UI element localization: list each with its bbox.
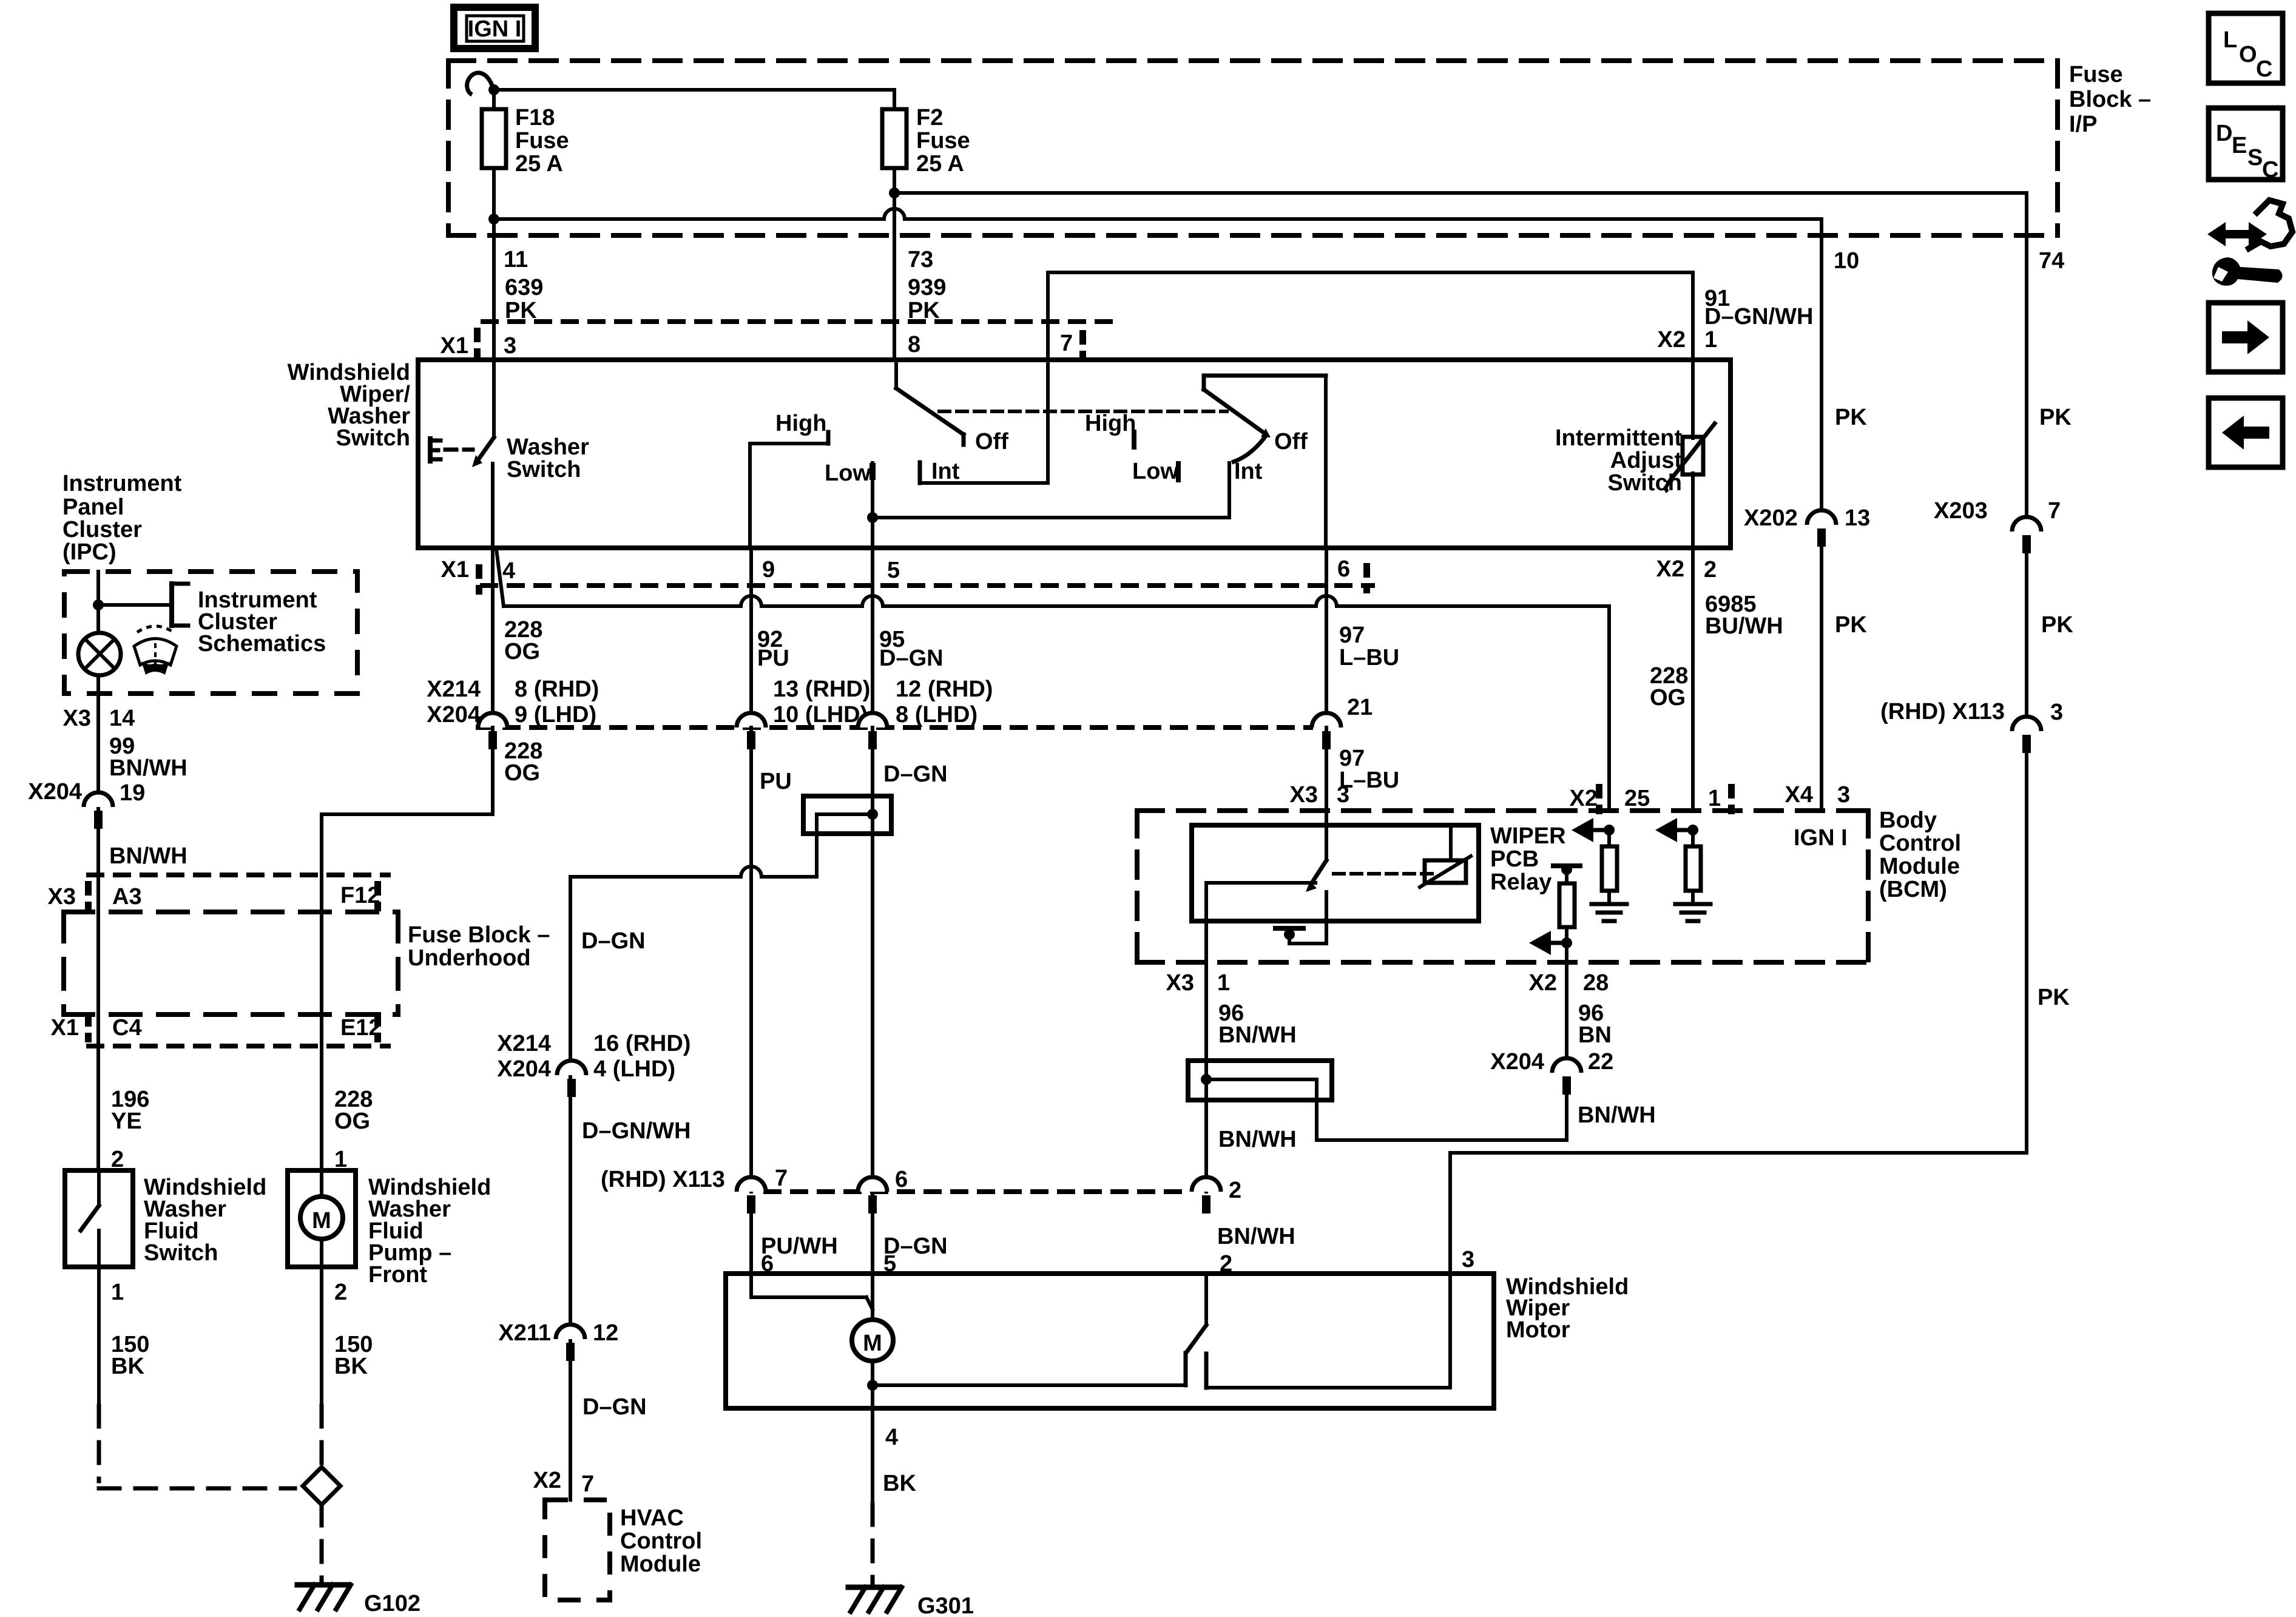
connector X204 pin 22 — [1490, 1049, 1613, 1095]
svg-text:L: L — [2223, 27, 2237, 53]
svg-text:X1: X1 — [441, 557, 469, 582]
relay K1 common wire from X3-3 — [1325, 811, 1328, 860]
svg-text:8 (RHD): 8 (RHD) — [515, 677, 599, 702]
wire IGN I feed curl — [467, 73, 494, 95]
wire 6985 BU/WH from X2-2 — [1691, 548, 1695, 811]
svg-text:D–GN: D–GN — [582, 1394, 647, 1420]
wire 92 PU from pin 9 — [749, 548, 753, 727]
svg-text:X204: X204 — [497, 1056, 551, 1082]
svg-text:F12: F12 — [340, 883, 380, 908]
label D-GN pin 5 — [883, 1234, 948, 1277]
power label IGN I — [454, 7, 535, 49]
sidebar icon back arrow — [2209, 398, 2283, 467]
label 99 BN/WH — [109, 734, 187, 781]
wire 74 PK down to wiper motor pin 3 — [1450, 753, 2027, 1274]
svg-text:High: High — [1085, 411, 1136, 436]
svg-text:PK: PK — [2038, 985, 2070, 1010]
svg-text:Fuse: Fuse — [2069, 62, 2123, 87]
label 91 D-GN/WH — [1704, 286, 1813, 329]
svg-text:S: S — [2247, 145, 2263, 170]
indicator lamp — [78, 633, 121, 675]
wire 95 D-GN from pin 5 — [871, 548, 874, 727]
S1a High contact — [750, 432, 828, 548]
label 97 L-BU (below connector) — [1339, 746, 1399, 793]
svg-text:939: 939 — [908, 275, 946, 300]
motor M1 armature — [852, 1320, 893, 1361]
label X3 pin 1 — [1166, 970, 1231, 996]
label Washer Switch — [507, 434, 589, 482]
svg-text:X203: X203 — [1934, 498, 1988, 524]
svg-text:O: O — [2239, 42, 2257, 67]
svg-text:D–GN: D–GN — [581, 928, 646, 954]
label 96 BN — [1578, 1001, 1612, 1048]
svg-text:639: 639 — [505, 275, 543, 300]
pins 12 (RHD) / 8 (LHD) — [896, 677, 993, 727]
junction F18 output — [488, 214, 499, 224]
wire fuse F2 top — [893, 90, 896, 109]
svg-text:4: 4 — [885, 1425, 898, 1450]
label Body Control Module (BCM) — [1879, 808, 1961, 902]
windshield washer fluid pump box — [288, 1170, 356, 1267]
wire relay common to X3-1 — [1204, 883, 1208, 962]
svg-text:Switch: Switch — [144, 1240, 218, 1266]
wire 97 L-BU down to BCM X3-3 — [1325, 727, 1328, 811]
svg-text:Control: Control — [620, 1528, 702, 1554]
svg-text:X204: X204 — [1490, 1049, 1544, 1075]
connector row X1/C4-E12 dotted — [89, 1044, 388, 1048]
sidebar icon LOC — [2209, 13, 2283, 83]
svg-text:X1: X1 — [51, 1015, 79, 1041]
washer switch actuator E bracket — [430, 439, 473, 461]
splice S-pack on D-GN wire — [803, 796, 891, 877]
S1b Low contact tick — [1176, 464, 1181, 480]
sidebar icon next arrow — [2209, 303, 2283, 372]
connector X1 dashed line (top) — [483, 319, 1110, 324]
label X2 pin 25 — [1570, 786, 1650, 811]
BCM input X2-25: junction, tap arrow, resistor, ground — [1572, 818, 1627, 921]
svg-text:G102: G102 — [364, 1591, 420, 1616]
svg-text:73: 73 — [908, 247, 933, 272]
connector (RHD) X113 pin 3 — [1880, 699, 2063, 753]
label 228 OG (pump) — [334, 1087, 373, 1134]
svg-text:D–GN/WH: D–GN/WH — [582, 1118, 690, 1144]
svg-text:Control: Control — [1879, 831, 1961, 856]
pins 8 (RHD) / 9 (LHD) — [515, 677, 599, 727]
svg-text:2: 2 — [1704, 557, 1717, 582]
svg-text:M: M — [863, 1331, 882, 1356]
svg-text:Panel: Panel — [62, 495, 124, 520]
svg-text:11: 11 — [504, 247, 528, 272]
washer fluid telltale icon — [134, 626, 177, 675]
connector arc on PU wire — [737, 1177, 766, 1214]
svg-text:1: 1 — [1704, 327, 1717, 353]
svg-text:X3: X3 — [63, 706, 91, 731]
svg-text:OG: OG — [504, 639, 540, 664]
label Fuse Block - Underhood — [408, 922, 550, 971]
svg-text:X214: X214 — [497, 1031, 551, 1056]
wire hop over pin 6 wire — [1316, 596, 1337, 606]
svg-text:3: 3 — [1837, 782, 1850, 808]
svg-text:X202: X202 — [1744, 505, 1798, 531]
switch S1a arm from pin 8 (Off position) — [896, 360, 964, 445]
wire BN/WH through fuse block — [96, 875, 100, 1046]
svg-text:G301: G301 — [917, 1593, 974, 1617]
wire pin 4 branch to BCM (net 228 OG) with hops — [496, 549, 1609, 811]
svg-text:8: 8 — [908, 332, 920, 357]
svg-text:9: 9 — [762, 557, 775, 582]
wire hop over F2 wire — [884, 209, 905, 219]
svg-text:7: 7 — [1060, 331, 1073, 356]
svg-text:3: 3 — [1337, 782, 1349, 808]
park switch arm from pin 2 — [1187, 1274, 1206, 1352]
svg-text:BK: BK — [111, 1354, 144, 1379]
wiper PCB relay box K1 — [1192, 825, 1479, 921]
svg-text:F18: F18 — [515, 105, 555, 130]
svg-text:Cluster: Cluster — [62, 517, 142, 542]
svg-text:E: E — [2232, 133, 2247, 158]
svg-text:X2: X2 — [1656, 556, 1684, 582]
wire 228 OG to underhood fuse block — [322, 727, 493, 1170]
svg-text:F2: F2 — [916, 105, 943, 130]
bracket to instrument cluster schematics — [98, 584, 188, 626]
washer switch contact symbol — [472, 360, 494, 548]
junction on F18 wire — [488, 84, 499, 95]
wire 228 OG from pin 4 — [491, 548, 495, 727]
svg-text:PK: PK — [2041, 612, 2073, 638]
svg-text:A3: A3 — [112, 884, 142, 910]
wire D-GN branch to X211 — [569, 1192, 572, 1500]
svg-text:3: 3 — [2050, 700, 2063, 725]
svg-text:1: 1 — [1217, 970, 1230, 996]
label 97 L-BU — [1339, 623, 1399, 670]
svg-text:19: 19 — [120, 780, 145, 806]
fuse F18 — [482, 109, 506, 168]
label Windshield Wiper/ Washer Switch — [288, 360, 411, 451]
wire 10 PK to BCM — [1820, 547, 1823, 811]
svg-text:BN/WH: BN/WH — [1218, 1022, 1297, 1048]
svg-text:3: 3 — [504, 333, 516, 359]
washer pump motor — [300, 1170, 343, 1267]
windshield wiper motor box M1 — [726, 1274, 1494, 1408]
wire hop over pin 5 wire — [862, 596, 883, 606]
svg-text:PCB: PCB — [1490, 846, 1539, 872]
connector X1 dashed line (bottom) — [482, 583, 1373, 588]
wire 91 D-GN/WH from switch pin 7 to BCM branch — [1048, 272, 1693, 360]
label 6985 BU/WH — [1705, 592, 1783, 639]
svg-text:21: 21 — [1347, 695, 1373, 720]
svg-text:BN: BN — [1578, 1022, 1612, 1048]
label X4 pin 3 — [1785, 782, 1851, 808]
label X2 pin 28 — [1529, 970, 1609, 996]
BCM input pin 1: junction, tap arrow, resistor, ground — [1655, 818, 1710, 921]
svg-text:BU/WH: BU/WH — [1705, 613, 1783, 639]
svg-text:Off: Off — [975, 429, 1008, 454]
svg-text:25 A: 25 A — [515, 151, 563, 177]
svg-text:Fuse Block –: Fuse Block – — [408, 922, 550, 948]
svg-text:PU: PU — [760, 769, 792, 794]
svg-text:(IPC): (IPC) — [62, 539, 116, 565]
connector arc on 97 L-BU wire — [1312, 713, 1341, 749]
svg-text:28: 28 — [1583, 970, 1609, 996]
label F2 Fuse 25 A — [916, 105, 970, 177]
label Windshield Wiper Motor — [1506, 1274, 1629, 1343]
park switch contacts — [1186, 1353, 1450, 1388]
HVAC control module dashed box — [545, 1500, 610, 1600]
svg-text:25 A: 25 A — [916, 151, 964, 177]
wire 97 L-BU from pin 6 — [1325, 548, 1328, 727]
svg-text:IGN I: IGN I — [468, 16, 522, 42]
svg-text:PU: PU — [757, 646, 789, 671]
svg-text:7: 7 — [581, 1471, 594, 1497]
svg-text:8 (LHD): 8 (LHD) — [896, 702, 977, 727]
svg-text:Schematics: Schematics — [198, 631, 326, 657]
wire D-GN into motor (low) — [871, 1214, 874, 1320]
svg-text:OG: OG — [334, 1109, 370, 1134]
svg-text:13 (RHD): 13 (RHD) — [773, 677, 870, 702]
wire 74 PK right side down — [2025, 235, 2028, 518]
svg-text:Intermittent: Intermittent — [1555, 425, 1682, 451]
svg-text:Switch: Switch — [1608, 470, 1682, 496]
svg-text:X4: X4 — [1785, 782, 1813, 808]
connector arc on 95 D-GN wire — [858, 713, 887, 749]
connector X203 pin 7 — [1934, 498, 2061, 553]
svg-text:C: C — [2256, 56, 2272, 82]
svg-text:OG: OG — [504, 760, 540, 786]
relay K1 coil — [1420, 825, 1471, 887]
svg-text:I/P: I/P — [2069, 112, 2097, 137]
svg-text:7: 7 — [775, 1166, 788, 1191]
svg-text:4: 4 — [502, 558, 515, 584]
wire 150 BK dashed to G102 — [99, 1267, 295, 1488]
svg-text:(BCM): (BCM) — [1879, 877, 1947, 902]
svg-text:13: 13 — [1845, 505, 1870, 531]
instrument panel cluster dashed box — [64, 572, 357, 694]
svg-text:(RHD) X113: (RHD) X113 — [1880, 699, 2005, 724]
label Fuse Block - I/P — [2069, 62, 2151, 137]
svg-text:BN/WH: BN/WH — [1217, 1224, 1295, 1249]
connector arc X214/X204 on 228 OG wire — [478, 713, 507, 749]
ground G102 — [297, 1585, 420, 1616]
label HVAC Control Module — [620, 1505, 702, 1577]
svg-text:L–BU: L–BU — [1339, 645, 1399, 670]
svg-text:IGN I: IGN I — [1794, 825, 1848, 851]
svg-text:Off: Off — [1274, 429, 1308, 454]
label 228 OG (to BCM X2-25) — [1650, 663, 1688, 711]
label Windshield Washer Fluid Pump - Front — [368, 1175, 491, 1288]
wire D-GN branch to HVAC path (hops PU wire) — [570, 877, 817, 1192]
label 96 BN/WH — [1218, 1001, 1297, 1048]
label X3 pin A3 — [48, 884, 142, 910]
wire hop over PU wire — [741, 866, 761, 877]
label 150 BK (switch) — [111, 1332, 149, 1379]
label X1 pin C4 — [51, 1015, 142, 1041]
svg-text:X214: X214 — [427, 677, 481, 702]
svg-text:Body: Body — [1879, 808, 1937, 833]
svg-text:12 (RHD): 12 (RHD) — [896, 677, 993, 702]
label 150 BK (pump) — [334, 1332, 373, 1379]
label 639 PK — [505, 275, 543, 323]
wire lamp to X3-14 — [96, 675, 100, 875]
wire 196 YE to fluid switch — [96, 1046, 100, 1170]
svg-text:X2: X2 — [533, 1468, 561, 1493]
label 939 PK — [908, 275, 946, 323]
wire 150 BK pump dashed to G102 — [320, 1267, 323, 1463]
wire 10 PK down to BCM X4-3 — [1820, 235, 1823, 519]
washer fluid switch contact — [81, 1170, 99, 1267]
wire F18 top bus to F2 — [494, 88, 894, 92]
label Instrument Cluster Schematics — [198, 587, 326, 657]
label X2 pin 2 — [1656, 556, 1717, 582]
svg-text:22: 22 — [1588, 1049, 1613, 1075]
wire diamond to G102 — [320, 1505, 324, 1581]
svg-text:Module: Module — [1879, 854, 1960, 879]
svg-text:Int: Int — [1234, 459, 1263, 484]
svg-text:X204: X204 — [28, 779, 82, 805]
wire motor to ground pin 4 — [867, 1361, 878, 1408]
wire 95 D-GN down through splice — [871, 727, 874, 1320]
svg-text:Underhood: Underhood — [408, 945, 531, 971]
label X3 pin 3 — [1290, 782, 1350, 808]
connector X211 pin 12 — [498, 1320, 618, 1361]
svg-text:D–GN: D–GN — [879, 646, 944, 671]
svg-text:6: 6 — [1337, 556, 1350, 582]
svg-text:BN/WH: BN/WH — [1578, 1102, 1656, 1128]
svg-text:X2: X2 — [1658, 327, 1686, 353]
svg-text:Block –: Block – — [2069, 87, 2151, 112]
svg-text:(RHD) X113: (RHD) X113 — [601, 1167, 725, 1192]
svg-text:BN/WH: BN/WH — [109, 755, 187, 781]
svg-text:1: 1 — [111, 1280, 124, 1305]
svg-text:12: 12 — [593, 1320, 618, 1346]
windshield wiper/washer switch box S1 — [418, 360, 1730, 548]
svg-text:Switch: Switch — [507, 457, 581, 482]
svg-text:2: 2 — [334, 1280, 347, 1305]
svg-text:Motor: Motor — [1506, 1317, 1570, 1343]
svg-text:D: D — [2216, 121, 2232, 146]
svg-text:Low: Low — [1132, 459, 1178, 484]
splice diamond G102 feed — [303, 1467, 340, 1505]
svg-text:C4: C4 — [112, 1015, 142, 1041]
wire fuse F18 top — [492, 90, 496, 109]
wire 96 BN from X2-28 — [1565, 962, 1568, 1065]
svg-text:6: 6 — [895, 1167, 908, 1192]
ground G301 — [848, 1587, 974, 1617]
svg-text:Low: Low — [825, 461, 871, 486]
splice S-pack on 96 BN/WH wire — [1188, 1061, 1567, 1140]
sidebar icon repair (arrow + wrench) — [2207, 200, 2292, 286]
svg-text:X2: X2 — [1529, 970, 1557, 996]
label BN/WH pin 2 — [1217, 1224, 1295, 1277]
svg-text:25: 25 — [1624, 786, 1650, 811]
fuse F2 — [882, 109, 907, 168]
label WIPER PCB Relay — [1490, 823, 1566, 895]
svg-text:OG: OG — [1650, 685, 1686, 711]
relay K1 coil linkage dashed — [1334, 872, 1432, 876]
wire 74 PK to X113-3 — [2025, 553, 2028, 718]
wire 96 BN/WH from X3-1 — [1204, 962, 1208, 1192]
label 92 PU — [757, 627, 789, 671]
wire F2 bottom, net 939 PK — [893, 168, 896, 360]
svg-text:X1: X1 — [441, 333, 468, 359]
wire fuse F18 to pin 10 (hops F2 wire) — [494, 219, 1822, 235]
svg-text:Relay: Relay — [1490, 869, 1551, 895]
svg-text:2: 2 — [1229, 1178, 1241, 1203]
intermittent adjust switch rheostat — [1666, 360, 1715, 548]
label Instrument Panel Cluster (IPC) — [62, 471, 182, 565]
svg-text:10 (LHD): 10 (LHD) — [773, 702, 868, 727]
svg-text:PK: PK — [1835, 612, 1867, 638]
label X2 pin 1 — [1658, 327, 1718, 353]
svg-text:Fuse: Fuse — [916, 128, 970, 154]
BCM output X2-28 driver: bar, resistor, tap arrow — [1529, 864, 1580, 962]
svg-text:D–GN: D–GN — [883, 761, 948, 787]
wire hop over pin 9 wire — [741, 596, 761, 606]
svg-text:Washer: Washer — [507, 434, 589, 460]
label PU/WH pin 6 — [761, 1234, 838, 1277]
svg-text:X3: X3 — [1290, 782, 1318, 808]
svg-text:X211: X211 — [498, 1320, 551, 1346]
connector X204 pin 19 — [28, 779, 145, 829]
svg-text:1: 1 — [1708, 786, 1721, 811]
fuse block - I/P dashed outline — [448, 61, 2058, 235]
S1b High contact tick — [1132, 432, 1136, 447]
relay K1 common bar — [1206, 881, 1315, 885]
svg-text:Front: Front — [368, 1262, 427, 1288]
fuse block underhood dashed box — [64, 912, 398, 1014]
switch linkage dashed (S1a-S1b) — [939, 410, 1227, 413]
pins 13 (RHD) / 10 (LHD) — [773, 677, 870, 727]
label Intermittent Adjust Switch — [1555, 425, 1682, 496]
connector arc on BN/WH wire — [1192, 1177, 1221, 1214]
svg-text:C: C — [2262, 157, 2278, 183]
svg-text:X2: X2 — [1570, 786, 1598, 811]
label 228 OG (below connector) — [504, 738, 542, 786]
wire F18 bottom, net 639 PK — [492, 168, 496, 360]
connector row X3/A3-F12 dotted — [89, 873, 388, 877]
connector arc on D-GN wire — [858, 1177, 887, 1214]
svg-text:HVAC: HVAC — [620, 1505, 684, 1531]
body control module dashed box — [1137, 811, 1868, 962]
svg-text:74: 74 — [2039, 248, 2064, 274]
junction Low wire / Int contact — [867, 512, 878, 523]
svg-text:M: M — [312, 1208, 331, 1234]
junction F2 output — [889, 187, 900, 198]
label 228 OG (pin 4) — [504, 617, 542, 664]
label 196 YE — [111, 1087, 149, 1134]
label 95 D-GN — [879, 627, 944, 671]
svg-text:97: 97 — [1339, 623, 1365, 648]
S1b Int contact down to Low-wire junction — [873, 463, 1229, 518]
svg-text:9 (LHD): 9 (LHD) — [515, 702, 596, 727]
svg-text:High: High — [775, 411, 826, 436]
wire 4 BK to G301 — [871, 1408, 874, 1584]
svg-text:BN/WH: BN/WH — [109, 843, 187, 869]
label F18 Fuse 25 A — [515, 105, 569, 177]
svg-text:Switch: Switch — [336, 425, 410, 451]
svg-text:PK: PK — [2039, 405, 2071, 430]
relay K1 NO contact to BCM internal — [1275, 892, 1326, 944]
relay K1 contact arm — [1306, 860, 1326, 892]
svg-text:10: 10 — [1834, 248, 1859, 274]
label X214 / X204 — [427, 677, 481, 727]
wire fuse F2 to pin 74 — [894, 193, 2027, 235]
switch S1b arm (Off position) from pin 6 bar — [1204, 376, 1326, 548]
svg-text:Int: Int — [931, 459, 960, 484]
wire park switch feed line — [873, 1383, 1186, 1387]
svg-text:D–GN/WH: D–GN/WH — [1704, 304, 1813, 329]
wire PU/WH into motor (high) — [751, 1214, 873, 1309]
svg-text:16 (RHD): 16 (RHD) — [593, 1031, 690, 1056]
